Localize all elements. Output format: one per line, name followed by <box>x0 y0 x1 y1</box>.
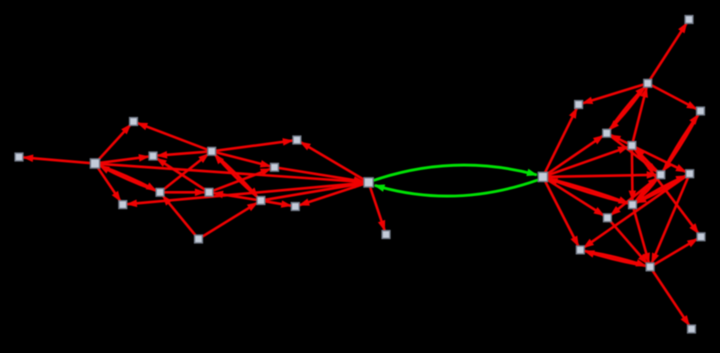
edge D8 to D9 <box>636 176 685 203</box>
edge A10 to A7 <box>215 154 258 197</box>
edge A7 to A3 <box>138 123 208 150</box>
edge D7 to D6 <box>635 149 658 172</box>
edge C1 to D5 <box>547 136 603 174</box>
edge A8 to A9 <box>213 169 270 191</box>
edge A2 to A1 <box>23 157 89 163</box>
node D1 <box>685 16 693 24</box>
edge A7 to A10 <box>215 155 258 198</box>
edge D9 to D8 <box>637 176 686 203</box>
node D12 <box>646 263 654 271</box>
node A11 <box>291 203 299 211</box>
edge D8 to D11 <box>584 176 686 247</box>
edge A13 to A5 <box>163 196 196 236</box>
edge D12 to D14 <box>653 271 690 326</box>
edge D2 to D4 <box>652 85 697 109</box>
node C1 <box>538 172 547 181</box>
node D13 <box>697 233 705 241</box>
node D7 <box>657 171 665 179</box>
edge D7 to D10 <box>611 178 658 216</box>
node D4 <box>697 107 705 115</box>
edge A10 to B1 <box>265 183 363 200</box>
green edge C1 to B1 (bottom curve) <box>375 180 538 196</box>
edge A2 to A6 <box>98 168 120 201</box>
node B2 <box>382 231 390 239</box>
node A12 <box>293 136 301 144</box>
node A9 <box>271 163 279 171</box>
edge D2 to D3 <box>583 85 644 104</box>
edge A13 to A10 <box>202 203 257 237</box>
edge D7 to D9 <box>636 178 658 202</box>
edge B1 to A12 <box>301 142 364 180</box>
node A2 <box>90 159 99 168</box>
edge D6 to D2 <box>633 88 647 142</box>
node D6 <box>628 142 636 150</box>
edge A5 to A7 <box>164 154 209 190</box>
node A13 <box>195 235 203 243</box>
edge D6 to D5 <box>611 135 628 143</box>
edge A10 to A8 <box>213 193 256 200</box>
edge D12 to D11 <box>585 251 646 266</box>
edge D6 to D13 <box>635 149 699 233</box>
node A6 <box>119 201 127 209</box>
edge D2 to D5 <box>610 87 645 130</box>
edge D12 to D13 <box>654 239 697 265</box>
edge C1 to D7 <box>548 175 656 177</box>
node A5 <box>156 188 164 196</box>
node D2 <box>644 79 652 87</box>
edge C1 to D10 <box>547 180 603 216</box>
edge D8 to D12 <box>652 178 688 263</box>
edge B1 to A11 <box>300 184 364 205</box>
node D9 <box>629 201 637 209</box>
edge D6 to D9 <box>631 150 634 200</box>
edge D9 to D7 <box>636 178 658 202</box>
edge A5 to A2 <box>100 166 156 191</box>
node A7 <box>208 147 216 155</box>
node D14 <box>688 325 696 333</box>
node A10 <box>257 197 265 205</box>
green edge B1 to C1 (top curve) <box>374 165 537 180</box>
edge A7 to A9 <box>216 152 270 166</box>
edge A2 to A3 <box>99 125 131 160</box>
edge A10 to A11 <box>265 201 291 205</box>
node B1 <box>364 178 373 187</box>
node A1 <box>15 153 23 161</box>
edge D10 to D12 <box>610 221 647 263</box>
node A4 <box>149 152 157 160</box>
edge A2 to B1 <box>100 164 363 182</box>
edge C1 to D9 <box>548 178 628 203</box>
edge D9 to C1 <box>548 178 628 203</box>
node D8 <box>686 170 694 178</box>
edge D2 to D1 <box>650 23 687 79</box>
node A3 <box>130 118 138 126</box>
node D5 <box>603 129 611 137</box>
edge A9 to B1 <box>279 168 364 182</box>
node A8 <box>205 188 213 196</box>
node D3 <box>575 101 583 109</box>
edge B1 to A6 <box>127 183 363 204</box>
edge C1 to D6 <box>548 147 628 175</box>
edge B1 to B2 <box>370 187 384 230</box>
edge D9 to D12 <box>634 209 649 263</box>
node D11 <box>576 246 584 254</box>
edge D4 to D7 <box>663 115 698 171</box>
edge A8 to A4 <box>157 158 206 190</box>
edge A7 to A12 <box>216 141 292 151</box>
edge C1 to D3 <box>545 108 577 172</box>
edge D11 to D12 <box>585 251 646 266</box>
edge D6 to D8 <box>636 148 686 172</box>
edge A7 to A4 <box>157 152 207 156</box>
edge A2 to A5 <box>100 166 156 191</box>
edge A2 to A4 <box>100 157 148 163</box>
edge D5 to D7 <box>610 136 657 172</box>
node D10 <box>604 214 612 222</box>
edge D5 to D2 <box>610 87 645 130</box>
edge D7 to D4 <box>663 115 698 171</box>
edge C1 to D11 <box>545 182 578 247</box>
edge A5 to A8 <box>165 191 205 194</box>
